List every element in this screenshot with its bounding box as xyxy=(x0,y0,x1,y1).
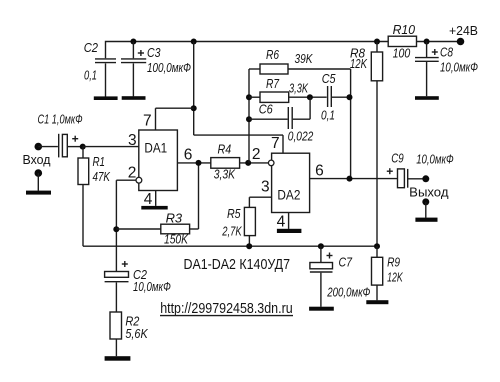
op-amp DA1 xyxy=(139,130,178,191)
node junction R9 top xyxy=(374,243,380,249)
svg-text:R4: R4 xyxy=(218,142,232,157)
svg-text:200,0мкФ: 200,0мкФ xyxy=(327,284,371,299)
wire DA1 pin2 feedback branch xyxy=(113,177,142,271)
svg-text:7: 7 xyxy=(271,135,280,152)
node junction C8 top xyxy=(424,39,430,45)
svg-text:0,1: 0,1 xyxy=(321,107,335,122)
svg-text:3,3K: 3,3K xyxy=(289,80,309,95)
resistor R1 47K xyxy=(78,147,111,247)
svg-text:C3: C3 xyxy=(147,45,161,60)
svg-text:+24В: +24В xyxy=(449,23,478,38)
svg-text:10,0мкФ: 10,0мкФ xyxy=(133,279,171,294)
svg-text:10,0мкФ: 10,0мкФ xyxy=(416,152,454,167)
svg-text:7: 7 xyxy=(143,112,152,129)
svg-text:DA1: DA1 xyxy=(144,139,167,155)
wire DA1 pin6 output xyxy=(177,162,210,164)
svg-text:3,3K: 3,3K xyxy=(214,166,236,181)
+24V terminal xyxy=(449,23,478,45)
svg-text:4: 4 xyxy=(277,213,286,230)
node junction R4 / feedback column / DA2 pin2 xyxy=(245,160,251,166)
svg-text:C2: C2 xyxy=(84,40,99,55)
ground terminal under output xyxy=(415,198,437,221)
svg-text:47K: 47K xyxy=(93,169,111,184)
capacitor C1 xyxy=(38,112,83,158)
node junction C3 top xyxy=(130,39,136,45)
svg-text:C1 1,0мкФ: C1 1,0мкФ xyxy=(38,112,83,127)
node junction input / R1 / pin3 xyxy=(80,144,86,150)
capacitor C3 xyxy=(121,42,191,97)
wire top supply rail right segment xyxy=(417,41,461,43)
wire to DA1 pin3 xyxy=(83,146,139,148)
svg-text:C6: C6 xyxy=(259,102,274,117)
svg-text:100,0мкФ: 100,0мкФ xyxy=(147,60,191,75)
svg-text:R6: R6 xyxy=(266,47,280,62)
resistor R2 5,6K xyxy=(110,312,149,356)
node junction C6 left xyxy=(246,116,252,122)
svg-text:0,022: 0,022 xyxy=(288,129,314,144)
resistor R6 39K xyxy=(249,47,351,74)
wire input to C1 xyxy=(38,146,58,148)
wire DA2 pin3 to R5 xyxy=(249,197,271,207)
svg-text:10,0мкФ: 10,0мкФ xyxy=(440,60,478,75)
svg-text:http://299792458.3dn.ru: http://299792458.3dn.ru xyxy=(160,301,293,317)
wire DA1 pin4 to ground xyxy=(141,191,167,210)
svg-text:DA1-DA2 К140УД7: DA1-DA2 К140УД7 xyxy=(184,256,291,273)
svg-text:39K: 39K xyxy=(295,51,314,66)
svg-text:R9: R9 xyxy=(387,254,400,269)
ground terminal under input xyxy=(26,169,51,194)
resistor R7 3,3K xyxy=(249,76,327,102)
svg-text:4: 4 xyxy=(144,191,153,208)
ground under C3 xyxy=(122,96,146,100)
wire pin7 distribution xyxy=(156,42,284,154)
node junction R7 right / C6 riser xyxy=(307,94,313,100)
capacitor C2 (10,0мкФ) bottom xyxy=(105,261,171,312)
input terminal xyxy=(35,143,43,151)
svg-text:R1: R1 xyxy=(93,154,106,169)
ground under R2 xyxy=(105,356,131,361)
wire DA2 pin4 to ground xyxy=(277,213,302,234)
node junction C5 right xyxy=(347,94,353,100)
resistor R10 100 xyxy=(388,22,416,60)
svg-text:R5: R5 xyxy=(227,206,241,221)
DA2 inverting input circle xyxy=(268,160,274,166)
resistor R4 3,3K xyxy=(211,142,269,182)
svg-text:C5: C5 xyxy=(322,71,336,86)
wire R6/C5 right column xyxy=(350,69,352,179)
wire DA2 pin6 output xyxy=(310,178,398,180)
svg-text:150K: 150K xyxy=(164,231,189,246)
svg-text:C7: C7 xyxy=(339,254,353,269)
svg-text:12K: 12K xyxy=(387,270,403,285)
svg-text:6: 6 xyxy=(315,163,324,180)
ground under C8 xyxy=(415,96,439,100)
capacitor C2 (0,1) top xyxy=(84,40,116,97)
wire bottom bus xyxy=(83,245,377,247)
svg-text:3: 3 xyxy=(261,179,270,196)
svg-text:Вход: Вход xyxy=(23,152,51,167)
capacitor C6 0,022 xyxy=(249,97,314,143)
resistor R8 12K xyxy=(350,39,383,247)
ground under R9 xyxy=(366,300,388,304)
node junction R7 left xyxy=(246,94,252,100)
ground under C7 xyxy=(309,307,334,311)
capacitor C8 xyxy=(415,42,478,97)
svg-text:DA2: DA2 xyxy=(277,186,300,202)
node junction supply to op-amp pin7 branch xyxy=(191,39,197,45)
node junction pin6 / feedback column xyxy=(347,176,353,182)
svg-text:12K: 12K xyxy=(350,56,368,71)
capacitor C9 xyxy=(387,150,454,187)
svg-text:2: 2 xyxy=(252,146,261,163)
op-amp DA2 xyxy=(272,153,310,212)
svg-text:6: 6 xyxy=(184,147,193,164)
resistor R3 150K xyxy=(116,163,198,246)
svg-text:Выход: Выход xyxy=(409,185,449,200)
svg-text:R7: R7 xyxy=(266,76,280,91)
svg-text:2: 2 xyxy=(128,165,137,182)
svg-text:100: 100 xyxy=(393,46,411,61)
svg-text:2,7K: 2,7K xyxy=(222,224,243,239)
svg-text:C9: C9 xyxy=(391,150,404,165)
output terminal xyxy=(409,175,449,199)
svg-text:5,6K: 5,6K xyxy=(125,326,148,341)
node junction C7 top xyxy=(318,243,324,249)
svg-text:R10: R10 xyxy=(393,22,416,37)
resistor R5 2,7K xyxy=(222,206,256,246)
capacitor C7 200,0мкФ xyxy=(310,246,370,307)
capacitor C5 0,1 xyxy=(321,71,350,123)
node junction R5 bottom xyxy=(246,243,252,249)
ground under C2 top xyxy=(94,96,118,100)
svg-text:C8: C8 xyxy=(440,45,454,60)
wire feedback node column xyxy=(248,69,250,163)
svg-text:0,1: 0,1 xyxy=(84,67,97,82)
resistor R9 12K xyxy=(372,246,404,300)
node junction pin6 / R3 / R4 xyxy=(196,160,202,166)
svg-text:R3: R3 xyxy=(166,210,183,225)
wire top supply rail left segment xyxy=(106,42,389,59)
